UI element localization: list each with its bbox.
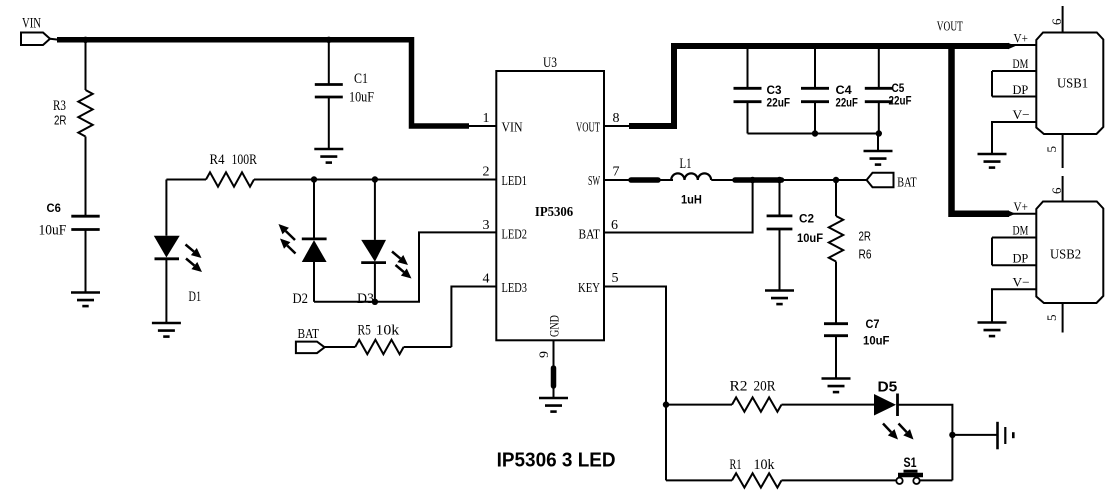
pin name BAT [579, 228, 601, 243]
junction D3 top [372, 176, 378, 182]
junction C2-SW [776, 177, 782, 183]
svg-text:C6: C6 [47, 201, 62, 215]
wire C3-C4-C5 bus [748, 133, 879, 135]
svg-text:22uF: 22uF [836, 96, 858, 110]
pin V+ USB1 [1014, 31, 1028, 46]
connector VIN [21, 33, 59, 46]
junction D3 bottom [372, 299, 378, 305]
pin name LED1 [502, 174, 528, 189]
pin name VOUT [576, 121, 600, 136]
wire pin7 stub [604, 179, 631, 181]
junction R6-SW [833, 177, 839, 183]
label D3 [357, 291, 374, 307]
resistor R1 [732, 473, 782, 487]
svg-text:R4: R4 [210, 152, 225, 168]
pin name KEY [578, 281, 600, 296]
resistor R4 [206, 172, 254, 186]
svg-text:VOUT: VOUT [576, 121, 600, 136]
wire pin6 row [604, 180, 753, 233]
LED D3 [361, 180, 386, 302]
label R5 [358, 323, 371, 339]
svg-text:2R: 2R [859, 229, 872, 244]
wire SW thick seg2 [735, 177, 782, 183]
svg-text:22uF: 22uF [889, 94, 912, 108]
wire R5 row [325, 346, 452, 348]
svg-text:6: 6 [1049, 187, 1064, 194]
label IP5306 [535, 205, 573, 220]
ground USB1 [978, 154, 1007, 168]
connector BAT left [296, 342, 325, 354]
junction D2 top [311, 176, 317, 182]
svg-text:5: 5 [1044, 146, 1059, 153]
label C1 value [349, 90, 374, 106]
svg-text:R5: R5 [358, 323, 371, 339]
wire VIN thick bus [57, 40, 469, 126]
pin 5 USB2 [1044, 303, 1063, 333]
junction KEY-R2 [663, 401, 669, 407]
svg-text:2R: 2R [54, 113, 67, 128]
pin DM USB2 [992, 223, 1036, 238]
svg-text:9: 9 [536, 351, 551, 358]
svg-text:3: 3 [483, 218, 490, 233]
svg-text:D3: D3 [357, 291, 374, 307]
svg-text:C7: C7 [866, 317, 880, 331]
label BAT left [298, 327, 320, 342]
junction ground tee [949, 432, 955, 438]
svg-text:6: 6 [611, 218, 618, 233]
svg-text:6: 6 [1049, 18, 1064, 25]
junction VIN-R3 [82, 37, 88, 43]
svg-text:KEY: KEY [578, 281, 600, 296]
svg-text:20R: 20R [754, 379, 776, 395]
capacitor C4 [801, 47, 829, 134]
wire SW thick seg1 [631, 177, 658, 183]
svg-text:C1: C1 [354, 71, 368, 87]
wire L1 to thick seg2 [711, 179, 735, 181]
connector USB1 body [1036, 33, 1103, 135]
svg-text:10uF: 10uF [863, 334, 890, 348]
svg-text:100R: 100R [232, 152, 257, 168]
junction C5 bus [876, 130, 882, 136]
label D5 [878, 379, 898, 396]
svg-text:U3: U3 [543, 55, 557, 71]
ground USB2 [978, 323, 1007, 337]
LED D3 arrows [392, 252, 412, 279]
svg-text:IP5306: IP5306 [535, 205, 573, 220]
pin DP USB2 [992, 251, 1036, 266]
label R1 value 10k [754, 457, 775, 473]
wire R1 row left [666, 479, 732, 481]
pin number 5 [612, 271, 619, 286]
pin DM USB1 [992, 56, 1036, 71]
LED D5 arrows [883, 424, 914, 440]
svg-text:VIN: VIN [22, 16, 41, 32]
pin 6 USB2 [1049, 176, 1064, 202]
label D1 [189, 289, 202, 305]
wire KEY pin [604, 287, 666, 481]
pin name SW [588, 174, 600, 189]
label BAT right [897, 176, 917, 191]
label C3 value [767, 96, 791, 110]
svg-text:V−: V− [1013, 275, 1030, 290]
wire pin1 stub [469, 125, 496, 127]
label C5 [892, 81, 905, 95]
label D2 [293, 291, 309, 307]
wire VOUT to USB2 thin [1009, 213, 1036, 215]
ground C3C4C5 [864, 151, 893, 165]
ground C6 [71, 293, 100, 307]
pin V- USB1 [992, 107, 1036, 154]
pin name GND rotated [548, 315, 562, 337]
svg-text:VOUT: VOUT [937, 20, 963, 35]
wire VOUT thick bus [629, 43, 1016, 126]
label R2 value 20R [754, 379, 776, 395]
label R2 [730, 379, 748, 395]
label USB2 [1050, 248, 1081, 263]
switch S1 [896, 471, 923, 484]
svg-text:1: 1 [483, 111, 490, 126]
resistor R3 [78, 41, 92, 216]
pin number 3 [483, 218, 490, 233]
pin 6 USB1 [1049, 6, 1064, 33]
svg-text:S1: S1 [904, 454, 917, 470]
LED D5 [874, 394, 898, 417]
LED D1 arrows [186, 245, 203, 273]
LED D2 [302, 180, 327, 302]
capacitor C3 [734, 47, 762, 134]
label R3 value 2R [54, 113, 67, 128]
pin name VIN [502, 121, 523, 136]
pin 5 USB1 [1044, 134, 1063, 168]
svg-text:D2: D2 [293, 291, 309, 307]
svg-text:10uF: 10uF [39, 223, 67, 239]
inductor L1 [671, 173, 711, 180]
pin 9 GND stub [553, 340, 555, 398]
svg-text:L1: L1 [680, 156, 692, 172]
label R3 [53, 98, 66, 114]
label C3 [767, 83, 782, 97]
node VIN label [22, 16, 41, 32]
svg-text:LED3: LED3 [502, 281, 528, 296]
label U3 [543, 55, 557, 71]
svg-text:IP5306 3 LED: IP5306 3 LED [497, 450, 616, 472]
label C5 value [889, 94, 912, 108]
label C7 [866, 317, 880, 331]
svg-text:R2: R2 [730, 379, 748, 395]
svg-text:10k: 10k [754, 457, 775, 473]
svg-text:V+: V+ [1014, 31, 1028, 46]
capacitor C6 [71, 216, 99, 292]
svg-text:LED2: LED2 [502, 228, 528, 243]
svg-text:D1: D1 [189, 289, 202, 305]
capacitor C7 [824, 324, 848, 379]
resistor R2 [732, 397, 782, 411]
svg-text:8: 8 [613, 111, 620, 126]
wire D2-D3 bus to LED2 pin [314, 232, 496, 301]
LED D2 arrows [279, 224, 296, 254]
svg-text:GND: GND [548, 315, 562, 337]
wire VOUT to USB1 thin [1009, 44, 1036, 46]
wire R2 to D5 [782, 404, 875, 406]
svg-text:USB2: USB2 [1050, 248, 1081, 263]
capacitor C5 [865, 47, 893, 134]
pin number 9 rotated [536, 351, 551, 358]
label R4 value 100R [232, 152, 257, 168]
wire to ground right [952, 434, 996, 436]
pin name LED2 [502, 228, 528, 243]
svg-text:VIN: VIN [502, 121, 523, 136]
svg-text:7: 7 [613, 165, 620, 180]
ground sideways [998, 422, 1014, 450]
pin V- USB2 [992, 275, 1036, 323]
svg-text:DP: DP [1013, 251, 1029, 266]
label USB1 [1057, 77, 1088, 92]
svg-text:USB1: USB1 [1057, 77, 1088, 92]
capacitor C2 [767, 180, 793, 291]
label VOUT [937, 20, 963, 35]
svg-text:BAT: BAT [298, 327, 320, 342]
svg-text:22uF: 22uF [767, 96, 791, 110]
LED D1 [154, 180, 180, 324]
pin name LED3 [502, 281, 528, 296]
junction VIN-C1 [326, 37, 332, 43]
pin number 8 [613, 111, 620, 126]
label R1 [730, 457, 742, 473]
label L1 [680, 156, 692, 172]
ground C1 [314, 149, 343, 163]
svg-text:4: 4 [483, 272, 490, 287]
label C4 [836, 83, 853, 97]
wire VOUT branch to USB2 thick [952, 46, 1016, 217]
label C6 [47, 201, 62, 215]
svg-text:10uF: 10uF [797, 231, 823, 245]
wire LED3 pin [451, 287, 496, 348]
pin number 6 [611, 218, 618, 233]
svg-text:DP: DP [1013, 82, 1029, 97]
capacitor C1 [315, 42, 343, 149]
pin number 2 [483, 165, 490, 180]
svg-text:R6: R6 [859, 247, 872, 262]
svg-text:C2: C2 [799, 212, 814, 226]
svg-text:BAT: BAT [897, 176, 917, 191]
wire DM-DP short USB1 [991, 71, 993, 97]
wire D5 to corner [898, 405, 953, 481]
svg-text:10uF: 10uF [349, 90, 374, 106]
label C2 value [797, 231, 823, 245]
pin V+ USB2 [1014, 199, 1028, 214]
wire SW to L1 [657, 179, 673, 181]
label L1 value 1uH [681, 193, 702, 207]
wire LED1 row [166, 179, 496, 181]
svg-text:5: 5 [1044, 315, 1059, 322]
svg-text:DM: DM [1013, 223, 1029, 238]
label C7 value [863, 334, 890, 348]
label R6 value 2R [859, 229, 872, 244]
title IP5306 3 LED [497, 450, 616, 472]
ground D1 [152, 323, 181, 337]
svg-text:2: 2 [483, 165, 490, 180]
label C2 [799, 212, 814, 226]
svg-text:LED1: LED1 [502, 174, 528, 189]
pin number 4 [483, 272, 490, 287]
junction pin6-SW [749, 177, 755, 183]
resistor R6 [829, 180, 843, 324]
pin DP USB1 [992, 82, 1036, 97]
svg-text:D5: D5 [878, 379, 898, 396]
svg-text:SW: SW [588, 174, 600, 189]
label S1 [904, 454, 917, 470]
wire R1 to S1 [782, 479, 897, 481]
label C1 [354, 71, 368, 87]
connector BAT right [867, 173, 894, 188]
wire DM-DP short USB2 [991, 238, 993, 266]
svg-text:10k: 10k [376, 323, 400, 339]
op-amp U3 body (IP5306 IC) [496, 71, 604, 340]
label R5 value 10k [376, 323, 400, 339]
wire R2 row left [666, 404, 732, 406]
svg-text:V−: V− [1013, 107, 1030, 122]
wire S1 to corner [920, 479, 953, 481]
svg-text:R1: R1 [730, 457, 742, 473]
svg-text:DM: DM [1013, 56, 1029, 71]
ground C7 [822, 379, 851, 393]
resistor R5 [355, 340, 403, 354]
wire SW to BAT conn [782, 179, 867, 181]
svg-text:1uH: 1uH [681, 193, 702, 207]
wire bus to ground [877, 134, 879, 152]
svg-text:BAT: BAT [579, 228, 601, 243]
junction C4 bus [812, 130, 818, 136]
connector USB2 body [1036, 202, 1103, 304]
ground C2 [765, 291, 794, 305]
label C6 value [39, 223, 67, 239]
pin number 7 [613, 165, 620, 180]
pin number 1 [483, 111, 490, 126]
wire pin8 stub [604, 125, 631, 127]
ground U3 pin9 [539, 398, 568, 412]
svg-text:5: 5 [612, 271, 619, 286]
svg-text:V+: V+ [1014, 199, 1028, 214]
label R4 [210, 152, 225, 168]
label R6 [859, 247, 872, 262]
label C4 value [836, 96, 858, 110]
